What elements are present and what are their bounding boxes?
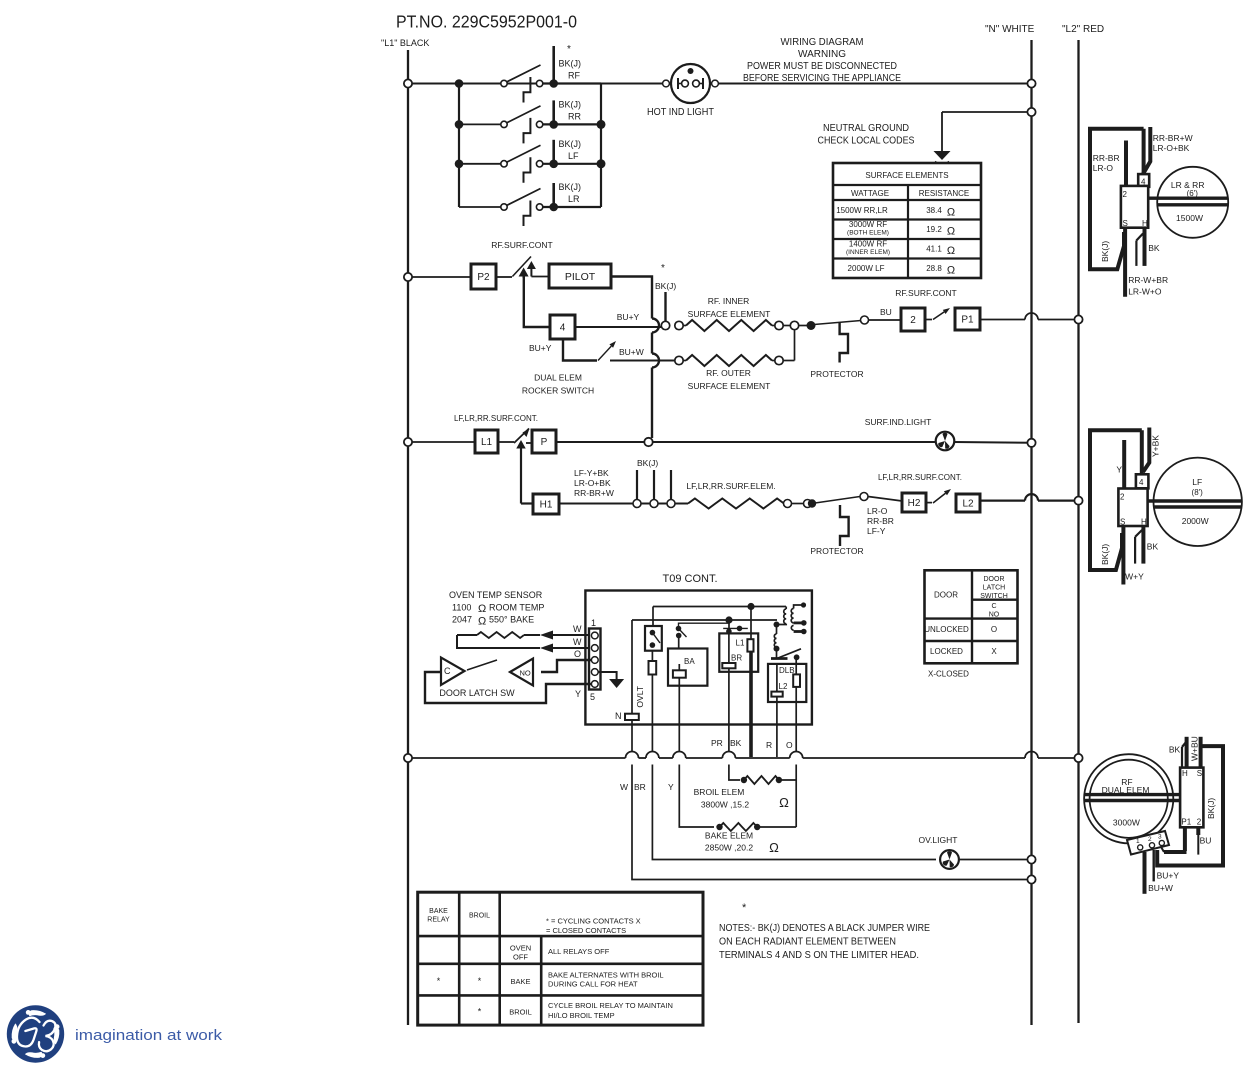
svg-text:4: 4 xyxy=(1141,178,1146,187)
relay BR branch xyxy=(723,620,748,663)
svg-text:3800W ,15.2: 3800W ,15.2 xyxy=(701,800,749,810)
svg-text:28.8: 28.8 xyxy=(926,264,942,273)
svg-text:ROOM TEMP: ROOM TEMP xyxy=(489,603,544,613)
wire H lead BK LR RR xyxy=(1136,228,1159,266)
wire S lead LR RR xyxy=(1125,228,1168,297)
switch surface unit LR xyxy=(459,182,601,211)
svg-text:Ω: Ω xyxy=(779,795,789,810)
svg-text:*: * xyxy=(742,902,747,914)
resistor RF inner surface element xyxy=(661,296,798,331)
switch RF surf control P2 xyxy=(496,257,549,279)
jumper BK(J) loop LR RR xyxy=(1090,129,1144,269)
switch protector RF xyxy=(799,316,869,330)
wire BR branch ovlight xyxy=(651,725,653,752)
jumper BK(J) RF xyxy=(1157,746,1223,865)
wire Y pin to C xyxy=(425,672,591,703)
svg-text:Ω: Ω xyxy=(947,245,955,257)
svg-text:BK(J): BK(J) xyxy=(1206,798,1216,819)
svg-text:LF: LF xyxy=(568,151,579,161)
svg-text:DURING CALL FOR HEAT: DURING CALL FOR HEAT xyxy=(548,980,638,989)
svg-text:O: O xyxy=(574,649,581,659)
switch surface unit LF xyxy=(459,139,601,168)
svg-text:Y: Y xyxy=(1116,465,1122,475)
jumper BK(J) inner xyxy=(655,263,676,322)
wire S lead RF xyxy=(1190,736,1201,767)
svg-text:5: 5 xyxy=(590,692,595,702)
box PILOT xyxy=(549,264,611,288)
svg-text:BAKE ALTERNATES WITH BROIL: BAKE ALTERNATES WITH BROIL xyxy=(548,971,664,980)
svg-text:HI/LO BROIL TEMP: HI/LO BROIL TEMP xyxy=(548,1011,615,1020)
wire L2 box to L2 bus xyxy=(980,494,1083,505)
svg-text:(6'): (6') xyxy=(1187,189,1199,198)
svg-text:SURFACE ELEMENT: SURFACE ELEMENT xyxy=(688,381,771,391)
svg-text:W: W xyxy=(573,637,582,647)
svg-text:L2: L2 xyxy=(779,682,788,691)
svg-text:W+Y: W+Y xyxy=(1125,571,1144,581)
wire T09 line1 xyxy=(653,603,786,610)
svg-text:PILOT: PILOT xyxy=(565,271,596,283)
table surface elements xyxy=(833,163,981,278)
svg-text:2000W LF: 2000W LF xyxy=(848,264,885,273)
svg-text:UNLOCKED: UNLOCKED xyxy=(924,625,969,634)
svg-text:SWITCH: SWITCH xyxy=(980,593,1008,600)
label oven temp sensor xyxy=(449,590,544,628)
svg-text:2: 2 xyxy=(1148,836,1152,843)
svg-text:Ω: Ω xyxy=(478,616,486,628)
svg-text:RR-BR+W: RR-BR+W xyxy=(574,488,614,498)
svg-text:NO: NO xyxy=(520,669,531,678)
svg-text:BROIL: BROIL xyxy=(469,913,490,920)
svg-text:W: W xyxy=(620,782,628,792)
svg-text:N: N xyxy=(615,711,622,721)
resistor OVLT xyxy=(635,651,656,725)
svg-text:BEFORE SERVICING THE APPLIANCE: BEFORE SERVICING THE APPLIANCE xyxy=(743,72,901,84)
svg-text:Ω: Ω xyxy=(769,840,779,855)
svg-text:2: 2 xyxy=(1197,818,1202,827)
switch surface unit RR xyxy=(459,99,601,128)
resistor broil element xyxy=(694,776,797,810)
box L2 xyxy=(956,494,980,512)
label wire colors H1 xyxy=(574,468,614,498)
svg-text:38.4: 38.4 xyxy=(926,206,942,215)
switch protector H1 row xyxy=(808,493,868,508)
svg-text:BAKE: BAKE xyxy=(510,977,530,986)
svg-text:RR-W+BR: RR-W+BR xyxy=(1128,275,1168,285)
svg-text:3000W RF: 3000W RF xyxy=(849,220,887,229)
label exit wires bottom xyxy=(620,782,674,792)
svg-text:DUAL ELEM: DUAL ELEM xyxy=(534,373,582,383)
ground arrow xyxy=(934,151,951,166)
switch DLB relay xyxy=(771,649,801,660)
svg-text:1500W RR,LR: 1500W RR,LR xyxy=(836,206,888,215)
svg-text:Y: Y xyxy=(668,782,674,792)
svg-text:RF. INNER: RF. INNER xyxy=(708,296,750,306)
svg-text:ALL RELAYS OFF: ALL RELAYS OFF xyxy=(548,947,610,956)
svg-text:P1: P1 xyxy=(961,315,974,326)
svg-text:X: X xyxy=(991,647,997,656)
svg-text:SURFACE ELEMENTS: SURFACE ELEMENTS xyxy=(865,171,948,180)
connector T09 pins xyxy=(589,618,601,702)
svg-text:RF.SURF.CONT: RF.SURF.CONT xyxy=(895,288,956,298)
label pin colors xyxy=(573,624,582,699)
svg-text:BROIL ELEM: BROIL ELEM xyxy=(694,787,745,797)
svg-text:Ω: Ω xyxy=(947,226,955,238)
svg-text:OVEN TEMP SENSOR: OVEN TEMP SENSOR xyxy=(449,590,543,600)
wire BU+W lead RF xyxy=(1145,852,1173,894)
jumper BK(J) stubs H1 xyxy=(633,458,675,508)
wire switch bank left vertical xyxy=(455,79,464,207)
wire cam tap down to 4 box xyxy=(524,276,550,327)
resistor oven temp sensor xyxy=(457,631,591,653)
svg-text:"L2" RED: "L2" RED xyxy=(1062,24,1104,35)
warning text block xyxy=(743,36,901,84)
svg-text:C: C xyxy=(444,666,451,676)
svg-text:LF: LF xyxy=(1192,477,1202,487)
svg-text:S: S xyxy=(1197,769,1202,778)
svg-text:= CLOSED CONTACTS: = CLOSED CONTACTS xyxy=(546,926,626,935)
svg-text:BK(J): BK(J) xyxy=(655,281,676,291)
svg-text:ON EACH RADIANT ELEMENT BETWEE: ON EACH RADIANT ELEMENT BETWEEN xyxy=(719,937,896,948)
svg-text:RESISTANCE: RESISTANCE xyxy=(919,189,970,198)
svg-text:NOTES:- BK(J) DENOTES A BLACK: NOTES:- BK(J) DENOTES A BLACK JUMPER WIR… xyxy=(719,923,930,934)
resistor L1 branch xyxy=(747,607,753,725)
svg-text:*: * xyxy=(567,44,571,55)
label dual elem rocker switch xyxy=(522,373,594,396)
protector RF thermal xyxy=(810,322,863,379)
element LF 2000W xyxy=(1148,458,1242,546)
svg-text:BU: BU xyxy=(1200,836,1212,846)
svg-text:(BOTH ELEM): (BOTH ELEM) xyxy=(847,230,889,237)
junction N neutral xyxy=(1027,108,1035,116)
limiter block RF xyxy=(1180,768,1203,828)
svg-text:OV.LIGHT: OV.LIGHT xyxy=(919,835,958,845)
svg-text:LOCKED: LOCKED xyxy=(930,647,963,656)
svg-text:2000W: 2000W xyxy=(1182,516,1209,526)
svg-text:BAKE: BAKE xyxy=(429,908,448,915)
wire T09 line2 xyxy=(632,616,777,623)
wire S lead LF xyxy=(1123,526,1144,585)
box T09 control xyxy=(585,573,812,725)
wire P1 to L2 xyxy=(980,313,1083,324)
wire Y branch bake xyxy=(678,725,680,752)
wire O branch xyxy=(795,725,797,752)
svg-text:PT.NO. 229C5952P001-0: PT.NO. 229C5952P001-0 xyxy=(396,12,577,32)
svg-text:SURF.IND.LIGHT: SURF.IND.LIGHT xyxy=(865,417,932,427)
svg-text:LR-O: LR-O xyxy=(1093,163,1114,173)
svg-text:R: R xyxy=(766,740,772,750)
box P1 xyxy=(955,308,980,330)
svg-text:RR: RR xyxy=(568,111,581,121)
wire feed 4 LF xyxy=(1143,428,1161,473)
svg-text:O: O xyxy=(786,740,793,750)
svg-text:LR-O+BK: LR-O+BK xyxy=(574,478,611,488)
svg-text:NO: NO xyxy=(989,612,1000,619)
svg-text:550° BAKE: 550° BAKE xyxy=(489,615,534,625)
svg-text:BU+Y: BU+Y xyxy=(1157,871,1180,881)
svg-text:1400W RF: 1400W RF xyxy=(849,240,887,249)
box L1 xyxy=(475,430,498,453)
svg-text:WIRING DIAGRAM: WIRING DIAGRAM xyxy=(781,36,864,48)
svg-text:TERMINALS 4 AND S ON THE LIMIT: TERMINALS 4 AND S ON THE LIMITER HEAD. xyxy=(719,950,919,961)
svg-text:BR: BR xyxy=(731,653,742,662)
svg-text:BAKE ELEM: BAKE ELEM xyxy=(705,831,753,841)
svg-text:DOOR: DOOR xyxy=(984,576,1005,583)
wire pilot down xyxy=(611,277,659,439)
wire pin2 LR RR xyxy=(1093,141,1126,188)
wire BU+Y lead RF xyxy=(1154,850,1180,881)
svg-text:* = CYCLING CONTACTS X: * = CYCLING CONTACTS X xyxy=(546,917,641,926)
junction L1 p2 row xyxy=(404,273,471,281)
wire P1 pin3 bar RF xyxy=(1161,827,1187,852)
svg-text:BK(J): BK(J) xyxy=(559,182,582,192)
svg-text:BU+W: BU+W xyxy=(619,347,644,357)
svg-text:H1: H1 xyxy=(540,500,553,511)
box P2 xyxy=(471,264,496,289)
fuse N xyxy=(615,620,639,725)
svg-text:HOT IND LIGHT: HOT IND LIGHT xyxy=(647,107,714,118)
svg-text:3000W: 3000W xyxy=(1113,817,1140,827)
switch dual elem rocker xyxy=(529,339,675,361)
svg-text:WATTAGE: WATTAGE xyxy=(851,189,889,198)
svg-text:OVLT: OVLT xyxy=(635,686,645,708)
svg-text:BK(J): BK(J) xyxy=(559,139,582,149)
svg-text:1: 1 xyxy=(591,618,596,628)
svg-text:BU+Y: BU+Y xyxy=(529,343,552,353)
svg-text:LF,LR,RR.SURF.ELEM.: LF,LR,RR.SURF.ELEM. xyxy=(686,481,775,491)
svg-text:BU+Y: BU+Y xyxy=(617,312,640,322)
svg-text:BK: BK xyxy=(1147,541,1159,551)
svg-text:4: 4 xyxy=(560,323,566,334)
svg-text:BK(J): BK(J) xyxy=(637,458,658,468)
svg-text:H: H xyxy=(1141,518,1147,527)
wire H lead RF xyxy=(1169,737,1187,768)
svg-text:BROIL: BROIL xyxy=(509,1008,532,1017)
svg-text:2047: 2047 xyxy=(452,615,472,625)
junction N top xyxy=(1027,79,1035,87)
svg-text:BK: BK xyxy=(1169,745,1181,755)
svg-text:Y+BK: Y+BK xyxy=(1151,435,1161,457)
resistor LF LR RR surf elem xyxy=(686,481,811,509)
svg-text:2: 2 xyxy=(910,315,916,326)
svg-text:P: P xyxy=(541,437,548,448)
switch door latch xyxy=(441,658,533,686)
label notes xyxy=(719,902,930,961)
svg-text:*: * xyxy=(661,263,665,274)
svg-text:Y: Y xyxy=(575,689,581,699)
svg-text:H: H xyxy=(1142,219,1148,228)
svg-text:RR-BR+W: RR-BR+W xyxy=(1153,133,1193,143)
svg-text:C: C xyxy=(991,603,996,610)
svg-text:imagination at work: imagination at work xyxy=(75,1027,223,1044)
svg-text:CHECK LOCAL CODES: CHECK LOCAL CODES xyxy=(818,135,915,147)
label neutral ground xyxy=(818,122,915,147)
wire cam rod to H1 xyxy=(516,440,533,504)
svg-text:BK(J): BK(J) xyxy=(559,59,582,69)
connector RF dual xyxy=(1127,831,1169,855)
protector H1 thermal xyxy=(810,505,863,556)
svg-text:4: 4 xyxy=(1139,478,1144,487)
svg-text:LR-W+O: LR-W+O xyxy=(1128,286,1162,296)
svg-text:T09 CONT.: T09 CONT. xyxy=(662,573,717,585)
svg-text:BK(J): BK(J) xyxy=(559,99,582,109)
box H2 xyxy=(868,493,926,512)
svg-text:LR-O+BK: LR-O+BK xyxy=(1153,143,1190,153)
svg-text:2: 2 xyxy=(1123,190,1128,199)
node N bus white xyxy=(985,24,1035,1025)
svg-text:RR-BR: RR-BR xyxy=(867,516,894,526)
svg-text:OFF: OFF xyxy=(513,953,528,962)
table relay chart xyxy=(418,892,703,1025)
limiter block LR RR xyxy=(1121,129,1149,228)
svg-text:Ω: Ω xyxy=(947,207,955,219)
svg-text:1: 1 xyxy=(1136,838,1140,845)
svg-text:DOOR: DOOR xyxy=(934,591,958,600)
wire neutral ground drop xyxy=(942,112,1032,152)
wire W branch xyxy=(631,725,633,752)
svg-text:NEUTRAL GROUND: NEUTRAL GROUND xyxy=(823,122,909,134)
svg-text:Ω: Ω xyxy=(478,603,486,615)
svg-text:LF-Y: LF-Y xyxy=(867,526,886,536)
svg-text:POWER MUST BE DISCONNECTED: POWER MUST BE DISCONNECTED xyxy=(747,60,897,72)
svg-text:(8'): (8') xyxy=(1192,488,1204,497)
node L1 bus black xyxy=(381,38,429,1025)
switch BA relay contact xyxy=(676,620,729,649)
wire H lead BK LF xyxy=(1135,526,1158,564)
svg-text:1100: 1100 xyxy=(452,603,471,613)
svg-text:PROTECTOR: PROTECTOR xyxy=(810,369,863,379)
lamp hot indicator light xyxy=(647,64,718,118)
svg-text:DUAL ELEM: DUAL ELEM xyxy=(1102,785,1150,795)
limiter block LF xyxy=(1118,430,1148,526)
svg-text:RF. OUTER: RF. OUTER xyxy=(706,368,751,378)
svg-text:RF: RF xyxy=(568,71,580,81)
wire O pin to NO xyxy=(541,660,591,672)
svg-text:RR-BR: RR-BR xyxy=(1093,153,1120,163)
svg-text:L1: L1 xyxy=(481,437,493,448)
svg-text:BU: BU xyxy=(880,307,892,317)
svg-text:W: W xyxy=(573,624,582,634)
svg-text:DOOR LATCH SW: DOOR LATCH SW xyxy=(439,688,515,698)
svg-text:19.2: 19.2 xyxy=(926,225,942,234)
label wire colors H2 xyxy=(867,506,894,536)
junction L1 top xyxy=(404,79,412,87)
junction N w line xyxy=(1027,875,1035,883)
box 4 xyxy=(550,315,575,339)
wire ovlight to N xyxy=(959,855,1036,863)
svg-text:BA: BA xyxy=(684,657,695,666)
svg-text:L2: L2 xyxy=(962,499,974,510)
svg-text:*: * xyxy=(437,976,441,986)
relay BA xyxy=(668,649,707,725)
svg-text:*: * xyxy=(478,976,482,986)
svg-text:BK(J): BK(J) xyxy=(1100,241,1110,262)
svg-text:2: 2 xyxy=(1120,493,1125,502)
svg-text:W+BU: W+BU xyxy=(1190,736,1200,761)
logo GE monogram xyxy=(7,1005,223,1062)
lamp oven light xyxy=(919,835,959,869)
svg-text:3: 3 xyxy=(1158,834,1162,841)
svg-text:P2: P2 xyxy=(477,272,490,283)
wire L1 feed rail xyxy=(404,752,1083,763)
svg-text:PROTECTOR: PROTECTOR xyxy=(810,546,863,556)
svg-text:RF.SURF.CONT: RF.SURF.CONT xyxy=(491,240,552,250)
svg-text:CYCLE BROIL RELAY TO MAINTAIN: CYCLE BROIL RELAY TO MAINTAIN xyxy=(548,1001,673,1010)
svg-text:"L1" BLACK: "L1" BLACK xyxy=(381,38,429,48)
wire light to N xyxy=(954,439,1036,447)
svg-text:LF,LR,RR.SURF.CONT.: LF,LR,RR.SURF.CONT. xyxy=(878,473,962,482)
svg-text:2850W ,20.2: 2850W ,20.2 xyxy=(705,843,753,853)
svg-text:*: * xyxy=(478,1007,482,1017)
box P xyxy=(532,430,556,453)
wire pin2 LF xyxy=(1116,440,1124,489)
cam linkage switch bank xyxy=(524,77,531,226)
box H1 xyxy=(533,494,559,514)
cam arrow 2-P1 xyxy=(925,308,950,320)
element LR RR 1500W xyxy=(1148,167,1228,238)
svg-text:LR-O: LR-O xyxy=(867,506,888,516)
svg-text:1500W: 1500W xyxy=(1176,213,1203,223)
svg-text:BR: BR xyxy=(634,782,646,792)
svg-text:"N" WHITE: "N" WHITE xyxy=(985,24,1035,35)
svg-text:BK(J): BK(J) xyxy=(1100,544,1110,565)
svg-text:O: O xyxy=(991,625,997,634)
wire P to surf ind light xyxy=(556,438,936,446)
svg-text:PR: PR xyxy=(711,738,723,748)
wire BU lead RF xyxy=(1198,827,1211,854)
svg-text:ROCKER SWITCH: ROCKER SWITCH xyxy=(522,386,594,396)
node L2 bus red xyxy=(1062,24,1104,1023)
relay L1 BR box xyxy=(719,633,758,724)
svg-text:X-CLOSED: X-CLOSED xyxy=(928,670,969,679)
switch LF LR RR surf control xyxy=(498,429,533,444)
svg-text:LF,LR,RR.SURF.CONT.: LF,LR,RR.SURF.CONT. xyxy=(454,414,538,423)
wire switch bank right vertical xyxy=(597,84,606,208)
junction L1 lamp row xyxy=(404,438,475,446)
svg-text:WARNING: WARNING xyxy=(798,48,846,60)
svg-text:LR: LR xyxy=(568,194,580,204)
wire L1 to hot indicator light to N xyxy=(408,83,1032,85)
svg-text:BK: BK xyxy=(1148,243,1160,253)
resistor bake element xyxy=(705,823,796,855)
cam arrow H2-L2 xyxy=(926,489,951,503)
svg-text:LATCH: LATCH xyxy=(983,585,1005,592)
wire PR branch broil xyxy=(728,725,730,752)
svg-text:SURFACE ELEMENT: SURFACE ELEMENT xyxy=(688,309,771,319)
svg-text:H2: H2 xyxy=(908,498,921,509)
resistor RF outer surface element xyxy=(675,330,795,391)
wire R branch xyxy=(776,725,778,758)
element RF dual 3000W xyxy=(1084,754,1181,843)
svg-text:LF-Y+BK: LF-Y+BK xyxy=(574,468,609,478)
jumper BK(J) loop LF xyxy=(1090,430,1142,570)
wire feed 4 LR RR xyxy=(1143,127,1193,174)
wire BU to 2 box xyxy=(869,307,902,320)
svg-text:P1: P1 xyxy=(1181,818,1191,827)
switch OVLT xyxy=(645,607,662,651)
relay DLB box xyxy=(768,657,806,724)
svg-text:41.1: 41.1 xyxy=(926,245,942,254)
wire BK branch xyxy=(749,725,753,758)
svg-text:S: S xyxy=(1123,219,1128,228)
wire H1 elements xyxy=(559,503,688,505)
svg-text:Ω: Ω xyxy=(947,265,955,277)
label exit wires top xyxy=(711,738,793,750)
svg-text:RELAY: RELAY xyxy=(427,917,450,924)
svg-text:(INNER ELEM): (INNER ELEM) xyxy=(846,249,890,256)
wire BU+Y to inner element xyxy=(575,312,662,327)
transformer T09 xyxy=(777,602,807,634)
wire pin4 ground arrow xyxy=(598,672,624,688)
